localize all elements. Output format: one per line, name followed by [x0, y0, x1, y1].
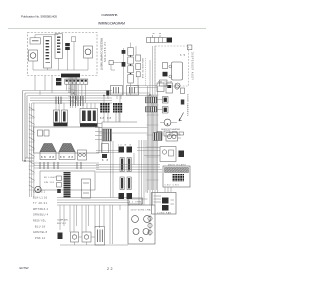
bus drop wires: [40, 91, 121, 111]
dispenser corner box: [187, 45, 192, 50]
dispenser solenoid (dark): [163, 72, 168, 77]
switch link wires: [157, 100, 163, 110]
svg-text:22: 22: [107, 267, 113, 271]
dispenser switch: [163, 63, 168, 69]
compressor protector circle: [143, 229, 149, 235]
bus tick marks: [56, 96, 83, 106]
svg-text:CN2 CN3: CN2 CN3: [165, 185, 180, 187]
svg-text:88 88: 88 88: [60, 155, 74, 159]
icemaker control module: [44, 37, 52, 69]
ice chute door motor: [175, 83, 180, 88]
dashed link wire: [145, 58, 147, 86]
thermistor chain circles: [149, 215, 151, 237]
thermostat cell A: [38, 130, 43, 136]
svg-text:BLK-L1 16: BLK-L1 16: [33, 196, 48, 199]
supply bus (horizontal wire group): [23, 91, 151, 104]
bottom bus drops: [60, 198, 128, 245]
dispenser dashed enclosure: [155, 46, 189, 86]
inverter module: [80, 109, 98, 127]
center plug (dark): [102, 154, 107, 158]
svg-text:RLY 8.2: RLY 8.2: [57, 223, 67, 225]
harness stub chain: [57, 176, 62, 181]
inner bus ticks: [40, 162, 81, 169]
svg-text:SW 120: SW 120: [44, 182, 55, 184]
harness block (dark striped column): [64, 172, 71, 198]
center small box: [102, 144, 109, 153]
middle connector column: [128, 48, 134, 84]
terminal strip drop wires: [67, 84, 86, 103]
door switch S1 (dark): [163, 97, 169, 104]
aux sensor column: [136, 55, 143, 79]
svg-text:DOOR HARNESS: DOOR HARNESS: [186, 94, 189, 117]
freezer control thermostat: [55, 34, 63, 59]
lamp box with two bulbs: [166, 133, 178, 142]
svg-text:DEFROST HEATER: DEFROST HEATER: [161, 128, 180, 131]
auger motor: [172, 62, 183, 80]
svg-text:88 88: 88 88: [100, 117, 112, 120]
top connector row: [147, 34, 173, 43]
harness clamp block (striped): [153, 133, 162, 141]
terminal strip: [65, 79, 88, 84]
top link wires: [134, 86, 158, 88]
compressor start winding: [144, 216, 151, 223]
freezer box drop wires: [35, 76, 52, 94]
svg-text:PNK 12: PNK 12: [35, 237, 46, 240]
compressor relay circle: [133, 229, 139, 235]
svg-text:SW LT 2W: SW LT 2W: [158, 82, 172, 84]
svg-text:8.2 OHM: 8.2 OHM: [129, 202, 141, 204]
pointer arrow: [179, 113, 184, 122]
harness clamp lower (striped): [146, 107, 158, 113]
overload protector pair: [54, 110, 68, 126]
svg-text:DISPENSER ASSY: DISPENSER ASSY: [191, 52, 194, 80]
bottom bus (horizontal wire group): [57, 198, 130, 206]
top connector end (dark): [167, 38, 172, 43]
svg-text:CODES 1: CODES 1: [33, 191, 46, 194]
board link wires: [137, 148, 160, 156]
plug connector pair CN2: [120, 177, 131, 190]
svg-text:BLU 18: BLU 18: [35, 225, 46, 228]
main control board: [163, 164, 190, 188]
mid bus (horizontal wire group): [96, 165, 162, 173]
harness bundle below freezer box: [69, 78, 77, 109]
freezer section dashed enclosure: [28, 33, 98, 76]
freezer light switch box: [30, 38, 41, 44]
compressor feed wires: [130, 193, 155, 205]
svg-text:FREEZER COMPARTMENT: FREEZER COMPARTMENT: [100, 38, 103, 70]
compressor terminal: [139, 238, 143, 242]
relay K1 (dark grid block): [100, 103, 110, 113]
damper heater (house symbol 2): [59, 144, 75, 160]
fresh food inner bus: [34, 163, 99, 168]
relay K2 (dark grid block): [113, 103, 123, 113]
fuse block (small dark): [106, 91, 109, 96]
svg-text:FF LIGHT: FF LIGHT: [44, 177, 57, 179]
svg-text:SENSOR FF 104: SENSOR FF 104: [141, 58, 143, 79]
svg-text:35: 35: [180, 54, 186, 57]
middle column tails: [131, 43, 139, 96]
auxiliary relay box: [160, 147, 176, 162]
center stub wires: [95, 124, 102, 140]
top relay cluster: [157, 83, 164, 92]
evaporator fan motor: [84, 46, 93, 58]
svg-text:ECT/W: ECT/W: [20, 266, 29, 270]
svg-text:RED/YEL: RED/YEL: [33, 220, 47, 223]
freezer harness connector (dark bar): [61, 74, 80, 78]
capacitor symbol box C2: [127, 86, 139, 96]
terminal T4 (dark): [127, 193, 133, 199]
defrost heater element row: [157, 132, 162, 136]
compressor box: [128, 205, 155, 244]
plug P12 (dark): [56, 78, 61, 81]
center connector body: [103, 129, 112, 141]
svg-text:TY 48-01: TY 48-01: [33, 202, 48, 205]
left harness bundle with lacing: [30, 103, 34, 197]
plug connector pair CN1: [120, 158, 131, 172]
svg-text:ORN/BLU 4: ORN/BLU 4: [33, 214, 49, 217]
svg-text:FGB8965HB: FGB8965HB: [102, 13, 118, 17]
relay drop wires: [104, 96, 120, 123]
run capacitor: [95, 227, 105, 246]
center link wires: [96, 151, 119, 153]
solenoid tall box: [82, 179, 91, 198]
capacitor symbol box C1: [111, 86, 123, 96]
svg-text:88: 88: [102, 159, 109, 162]
svg-text:L1 N G: L1 N G: [118, 145, 131, 147]
overload protector: [82, 232, 91, 242]
right vertical harness bundle: [148, 46, 158, 193]
small junction box: [72, 37, 76, 42]
defrost thermostat: [164, 119, 171, 126]
svg-text:GRN/YEL 8: GRN/YEL 8: [33, 231, 48, 234]
condenser fan box: [152, 187, 177, 215]
terminal T2 (dark): [127, 147, 133, 153]
board connector J1 (dark grid): [172, 174, 184, 182]
service cord (dark plug): [58, 233, 63, 240]
svg-text:Publication No. 5995581H05: Publication No. 5995581H05: [21, 15, 57, 19]
water valve coil: [35, 186, 41, 192]
misc junctions: [73, 92, 74, 93]
svg-text:COMP 115V: COMP 115V: [57, 220, 69, 222]
header rule: [8, 27, 206, 29]
dispenser lower box: [160, 80, 168, 86]
left riser pair: [23, 91, 34, 162]
compressor terminal box: [128, 198, 143, 204]
fresh food section box: [34, 127, 100, 153]
start relay PTC: [71, 232, 79, 242]
tap component: [109, 61, 113, 65]
center enclosure outline: [102, 122, 137, 153]
aux switch box: [78, 150, 87, 160]
svg-text:115V 60HZ LRA: 115V 60HZ LRA: [131, 209, 152, 212]
indicator (dark block): [179, 151, 185, 158]
terminal T1 (dark): [119, 147, 125, 153]
compressor run winding: [132, 216, 139, 223]
cross links to right bundle: [99, 128, 148, 134]
door switch S2 (dark): [163, 107, 169, 114]
freezer internal wiring: [33, 42, 88, 70]
bottom component links: [60, 237, 128, 245]
icemaker mold heater motor: [29, 50, 38, 61]
terminal T3 (dark): [119, 193, 125, 199]
harness clamp upper (striped): [146, 97, 158, 103]
defrost timer contacts (dark pair): [65, 43, 70, 46]
middle sensor chain: [109, 48, 125, 95]
center riser wires: [111, 140, 147, 205]
svg-text:COND FAN: COND FAN: [157, 212, 172, 215]
svg-text:88 88: 88 88: [41, 155, 55, 159]
thermostat cell B: [44, 130, 49, 136]
damper heater (house symbol 1): [40, 144, 56, 160]
plug P13 (dark): [56, 82, 61, 85]
aux column boxes: [181, 88, 185, 94]
svg-text:WIRING DIAGRAM: WIRING DIAGRAM: [98, 22, 125, 26]
svg-text:WHT/BLK 2: WHT/BLK 2: [33, 208, 49, 211]
lower section box: [40, 171, 95, 190]
svg-text:FZ SECTION: FZ SECTION: [103, 42, 106, 62]
